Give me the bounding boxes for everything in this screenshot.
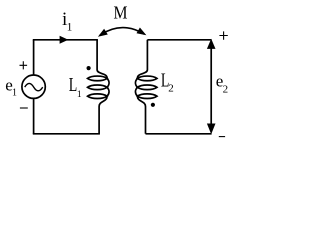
inductor L2 [135,40,157,134]
M arc left arrowhead [98,29,108,37]
plus sign right [219,31,227,39]
minus sign right [219,136,225,138]
wire: left loop top [33,39,98,41]
minus sign left [20,107,28,109]
svg-text:M: M [114,2,128,22]
wire: left loop left upper [33,40,35,76]
dot L2 [151,103,155,107]
dot L1 [87,66,91,70]
wire: e2 terminal line [210,48,212,124]
wire: left loop bottom [33,133,100,135]
M coupling arc [100,28,145,35]
current arrow i1 [60,36,69,44]
M arc right arrowhead [137,28,147,36]
svg-text:2: 2 [168,83,174,95]
e2 down arrowhead [207,124,216,135]
plus sign left [20,61,28,69]
sine wave inside source [25,83,43,90]
wire: right loop top [147,39,211,41]
e2 up arrowhead [207,39,216,49]
wire: right loop bottom [146,133,212,135]
source e1 [22,75,45,98]
svg-text:1: 1 [67,21,73,33]
inductor L1 [88,40,110,134]
svg-text:1: 1 [12,87,17,98]
svg-text:1: 1 [77,90,82,100]
svg-text:2: 2 [223,84,229,96]
wire: left loop left lower [33,98,35,134]
